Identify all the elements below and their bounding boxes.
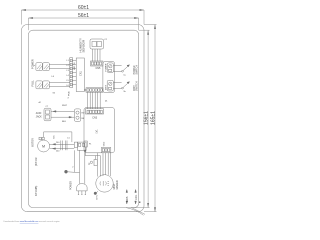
svg-text:10±1: 10±1: [135, 194, 138, 200]
svg-text:NC: NC: [54, 135, 56, 139]
svg-text:60±1: 60±1: [78, 5, 89, 11]
svg-text:CN3: CN3: [92, 117, 97, 120]
svg-text:56±1: 56±1: [78, 13, 89, 19]
svg-text:156±1: 156±1: [144, 111, 150, 125]
svg-text:SENSOR: SENSOR: [82, 39, 86, 53]
svg-text:FULL: FULL: [30, 80, 34, 87]
svg-text:JACK: JACK: [36, 116, 42, 119]
svg-text:BLK: BLK: [62, 121, 67, 123]
svg-text:(KY-03: (KY-03: [34, 157, 38, 166]
svg-text:POWER: POWER: [30, 59, 34, 69]
svg-text:PCB: PCB: [69, 91, 71, 96]
svg-text:SWITCH: SWITCH: [135, 81, 138, 91]
svg-text:NTC: NTC: [96, 194, 98, 199]
svg-text:AC/D: AC/D: [36, 112, 42, 115]
svg-text:MOTOR: MOTOR: [32, 138, 35, 147]
svg-text:KY-03B): KY-03B): [34, 186, 38, 196]
svg-text:M: M: [42, 145, 45, 149]
svg-text:LV1: LV1: [96, 129, 99, 134]
svg-text:30±5: 30±5: [126, 196, 129, 202]
svg-text:CN2: CN2: [104, 141, 106, 146]
svg-text:CN5: CN5: [96, 67, 101, 70]
svg-text:POWER: POWER: [106, 63, 108, 71]
svg-text:LED TH: LED TH: [74, 62, 76, 70]
svg-text:SWITCH: SWITCH: [135, 65, 138, 75]
svg-text:CN1: CN1: [80, 71, 83, 76]
svg-text:WHT: WHT: [62, 105, 68, 107]
svg-text:POWER: POWER: [70, 181, 73, 190]
svg-text:MIST: MIST: [106, 84, 108, 90]
svg-text:Downloaded from www.Manualslib: Downloaded from www.Manualslib.com manua…: [4, 221, 61, 223]
svg-text:MAKER: MAKER: [115, 180, 119, 189]
svg-text:165±1: 165±1: [151, 111, 157, 125]
